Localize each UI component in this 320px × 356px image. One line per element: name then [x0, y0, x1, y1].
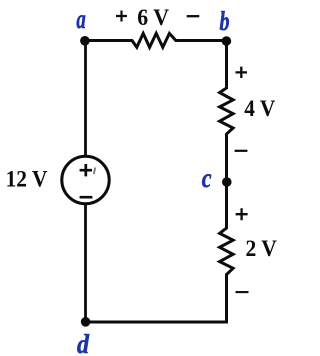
svg-text:c: c	[202, 163, 212, 193]
svg-text:6 V: 6 V	[137, 5, 169, 30]
svg-text:a: a	[76, 4, 85, 34]
svg-text:4 V: 4 V	[244, 96, 275, 121]
svg-text:2 V: 2 V	[246, 236, 278, 261]
svg-text:12 V: 12 V	[6, 167, 48, 192]
svg-text:b: b	[220, 6, 230, 36]
svg-text:d: d	[77, 329, 89, 356]
